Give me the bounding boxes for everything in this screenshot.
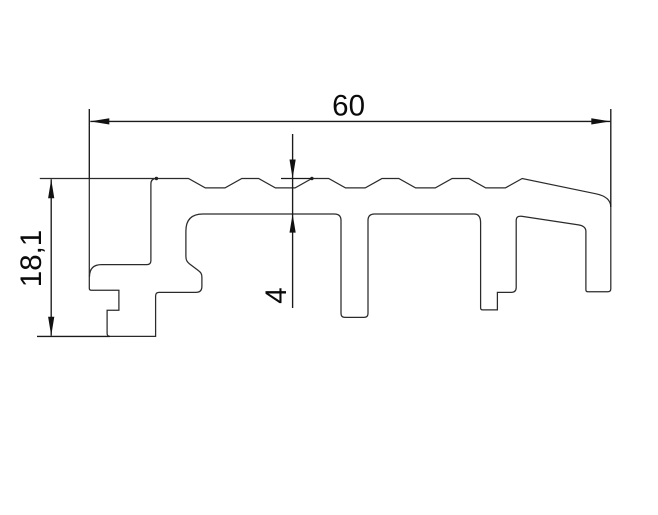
dimension 4: [281, 134, 312, 308]
dim line: [50, 179, 52, 336]
svg-text:60: 60: [332, 90, 365, 123]
junction dot left: [155, 177, 158, 180]
arrow right: [591, 118, 610, 124]
dim line: [90, 120, 610, 122]
arrow up: [48, 179, 54, 198]
dimension 18,1: [37, 179, 110, 336]
left channel inner wall: [90, 179, 157, 277]
ext line left: [88, 109, 90, 179]
svg-text:18,1: 18,1: [15, 230, 48, 287]
arrow up to inner line: [290, 214, 296, 233]
profile outer outline: [40, 179, 611, 337]
dimension 60: [89, 109, 611, 207]
dim line: [292, 134, 294, 308]
arrow down: [48, 317, 54, 336]
ext line right: [610, 109, 612, 207]
svg-text:4: 4: [260, 287, 293, 303]
arrow down to surface: [290, 160, 296, 179]
junction dot mid: [310, 177, 313, 180]
ext line bottom: [37, 335, 110, 337]
ext line: [281, 178, 312, 180]
arrow left: [90, 118, 109, 124]
